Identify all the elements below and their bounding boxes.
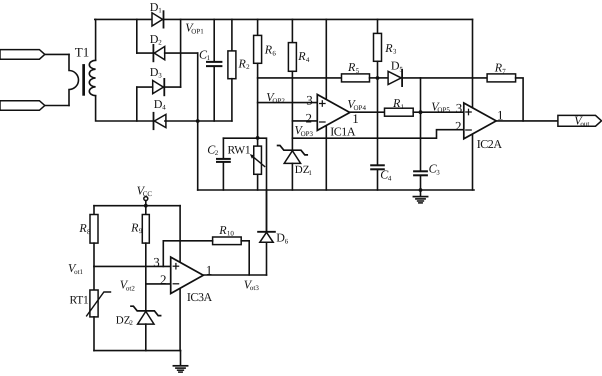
svg-text:OP3: OP3	[301, 130, 314, 138]
wire V_OP2 node to R5	[258, 77, 342, 79]
wire IC1A output to R1	[350, 111, 385, 113]
transformer T1 primary	[69, 54, 79, 105]
svg-text:7: 7	[502, 67, 506, 75]
svg-text:RW1: RW1	[228, 144, 251, 156]
wire V_OP3 to IC2A pin2	[292, 130, 463, 139]
node V_OP5	[419, 110, 423, 114]
svg-text:2: 2	[246, 63, 250, 71]
resistor R3	[377, 19, 379, 33]
IC3A power line	[179, 206, 181, 351]
node bridge-minus	[196, 119, 200, 123]
svg-text:out: out	[580, 120, 589, 128]
wire V_ot1	[94, 265, 171, 267]
svg-text:3: 3	[153, 255, 160, 270]
resistor R1	[385, 108, 414, 116]
resistor R8	[93, 206, 95, 215]
wire IC2A output	[496, 120, 558, 122]
op-amp IC2A	[464, 103, 496, 139]
wire secondary-bottom	[96, 96, 154, 121]
resistor R2	[231, 19, 233, 51]
zener DZ2	[131, 306, 161, 315]
wire V_ot2 pin2	[146, 283, 171, 285]
resistor R7	[487, 74, 515, 82]
wire D6 branch down	[266, 190, 268, 232]
bottom wire lower	[94, 350, 181, 352]
node V_cc	[144, 204, 148, 208]
zener DZ1	[278, 146, 308, 155]
transformer T1 secondary	[89, 60, 95, 95]
diode D1	[152, 13, 163, 26]
svg-text:3: 3	[158, 72, 162, 80]
svg-text:1: 1	[401, 103, 405, 111]
diode D2	[154, 47, 164, 60]
input terminal 1	[0, 50, 45, 60]
wire V_OP5 down to C3	[420, 112, 422, 170]
node ground	[419, 188, 423, 192]
input terminal 2	[0, 101, 45, 111]
wire R9 bottom to DZ2	[145, 243, 147, 311]
svg-text:4: 4	[388, 174, 392, 182]
svg-text:10: 10	[227, 230, 235, 238]
wire R10 right to output	[241, 241, 249, 275]
top rail V_OP1	[95, 18, 473, 20]
diode D5	[378, 77, 389, 79]
wire D2 to minus node	[197, 53, 199, 121]
svg-text:2: 2	[306, 110, 313, 125]
wire IC3A output	[203, 274, 266, 276]
svg-text:2: 2	[160, 272, 167, 287]
diode D4	[154, 114, 166, 127]
wire C2 RW1 node	[223, 138, 266, 232]
thermistor RT1	[93, 266, 95, 290]
svg-text:2: 2	[455, 119, 462, 134]
wire	[45, 53, 69, 55]
ground symbol	[420, 190, 422, 196]
svg-text:4: 4	[162, 104, 166, 112]
wire down to V_OP5	[420, 78, 422, 112]
V_cc wire	[94, 205, 180, 207]
wire rail to D2	[136, 19, 138, 53]
op-amp IC1A	[317, 95, 350, 131]
svg-text:OP4: OP4	[354, 104, 367, 112]
svg-text:3: 3	[436, 168, 440, 176]
capacitor C4	[371, 164, 384, 166]
svg-text:2: 2	[215, 149, 219, 157]
wire R6 bottom down to RW1 node	[257, 63, 259, 138]
wire R4 bottom to DZ1	[291, 71, 293, 150]
wire D4 anode	[165, 120, 198, 122]
pin3 wire V_OP2 to IC1A	[258, 102, 318, 104]
wire D2 anode	[165, 52, 198, 54]
svg-text:RT1: RT1	[70, 295, 90, 307]
wire	[45, 105, 69, 107]
svg-text:OP2: OP2	[272, 97, 285, 105]
node R3/R5/D5	[376, 76, 380, 80]
wire D3 cathode	[164, 86, 180, 88]
IC1A power line	[325, 19, 327, 190]
svg-text:1: 1	[308, 169, 312, 177]
wire R3 node down to C4	[377, 78, 379, 164]
IC2A power line	[472, 19, 474, 190]
output terminal V_out	[558, 115, 602, 126]
svg-text:IC1A: IC1A	[330, 124, 356, 138]
wire D5 cathode to R7	[402, 77, 487, 79]
wire D2 cathode	[137, 52, 154, 54]
svg-text:T1: T1	[75, 45, 89, 60]
resistor R9	[145, 206, 147, 215]
svg-text:5: 5	[356, 67, 360, 75]
wire V_OP5 to IC2A pin3	[421, 111, 464, 113]
svg-text:6: 6	[285, 237, 289, 245]
svg-text:3: 3	[306, 93, 313, 108]
svg-text:IC3A: IC3A	[187, 290, 213, 304]
transformer T1 core	[82, 64, 85, 96]
diode D6	[266, 231, 268, 233]
svg-text:IC2A: IC2A	[477, 137, 503, 151]
resistor R5	[342, 74, 370, 82]
resistor R4	[291, 19, 293, 42]
pin2 wire to IC1A	[292, 120, 317, 122]
svg-text:ot3: ot3	[250, 284, 259, 292]
wire minus node right	[198, 120, 232, 122]
ground symbol lower	[180, 351, 182, 366]
svg-text:ot1: ot1	[74, 268, 83, 276]
svg-text:9: 9	[139, 227, 143, 235]
resistor R6	[257, 19, 259, 35]
node RW1 top	[256, 136, 260, 140]
svg-text:8: 8	[87, 228, 91, 236]
wire minus node down	[197, 121, 199, 190]
svg-text:OP1: OP1	[191, 27, 204, 35]
svg-text:2: 2	[129, 319, 133, 327]
wire R5 to node	[370, 77, 378, 79]
potentiometer RW1	[257, 138, 259, 146]
wire rail to D3	[180, 19, 182, 87]
svg-text:6: 6	[272, 49, 276, 57]
wire R10 left to pin3	[163, 241, 212, 267]
capacitor C1	[213, 19, 215, 61]
wire D3 anode	[137, 86, 153, 88]
terminal V_cc	[144, 197, 148, 201]
bottom rail ground	[198, 189, 474, 191]
wire R1 to V_OP5 node	[413, 111, 420, 113]
svg-text:3: 3	[393, 48, 397, 56]
svg-text:1: 1	[158, 7, 162, 15]
capacitor C2	[222, 138, 224, 158]
op-amp IC3A	[171, 257, 204, 293]
svg-text:3: 3	[456, 100, 463, 115]
svg-text:4: 4	[306, 56, 310, 64]
svg-text:1: 1	[207, 54, 211, 62]
svg-text:2: 2	[158, 39, 162, 47]
svg-text:5: 5	[399, 65, 403, 73]
svg-text:ot2: ot2	[126, 284, 135, 292]
wire secondary-top to rail	[95, 19, 97, 60]
wire R7 to output	[516, 78, 524, 121]
resistor R10	[213, 237, 242, 245]
capacitor C3	[414, 170, 427, 172]
wire D3 to bottom	[136, 87, 138, 121]
diode D3	[153, 81, 164, 94]
